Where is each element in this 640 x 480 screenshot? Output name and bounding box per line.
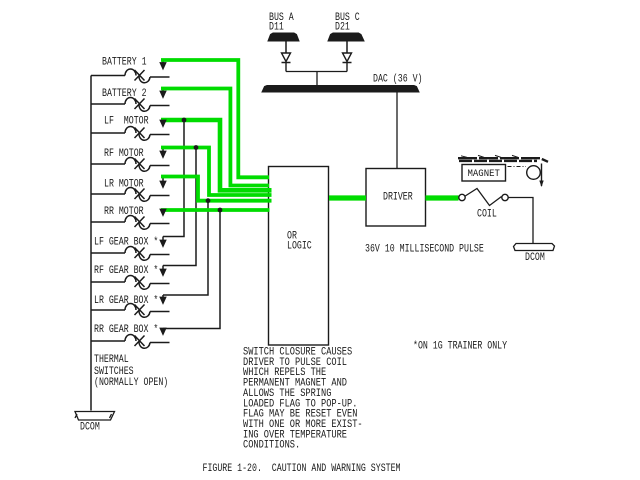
svg-text:LF GEAR BOX *: LF GEAR BOX * xyxy=(94,237,158,249)
power bus DAC (36 V) bar xyxy=(262,86,419,93)
svg-text:FIGURE 1-20. CAUTION AND WARN: FIGURE 1-20. CAUTION AND WARNING SYSTEM xyxy=(203,463,401,475)
coil L1 winding xyxy=(465,189,501,206)
thermal switch S6 RR MOTOR xyxy=(125,216,150,230)
OR logic U1 box xyxy=(269,167,329,346)
wire: arrow tail at S7 LF GEAR BOX xyxy=(162,237,164,242)
contact arrow at S9 LR GEAR BOX xyxy=(160,297,166,304)
svg-text:DCOM: DCOM xyxy=(525,252,545,264)
svg-text:BATTERY 1: BATTERY 1 xyxy=(102,57,147,69)
svg-text:LR GEAR BOX *: LR GEAR BOX * xyxy=(94,295,158,307)
svg-text:*ON 1G TRAINER ONLY: *ON 1G TRAINER ONLY xyxy=(413,341,507,353)
thermal switch S1 BATTERY 1 xyxy=(125,69,150,83)
wire: RF GEAR BOX branch from RF MOTOR net xyxy=(163,148,196,266)
wire: S9 LR GEAR BOX row horizontal leads xyxy=(91,310,170,312)
svg-text:RF GEAR BOX *: RF GEAR BOX * xyxy=(94,265,158,277)
wire: S2 BATTERY 2 row horizontal leads xyxy=(91,104,170,106)
thermal switch S7 LF GEAR BOX xyxy=(125,247,150,261)
svg-text:BATTERY 2: BATTERY 2 xyxy=(102,88,147,100)
bus bar BUS A D11 xyxy=(268,33,299,41)
wire: arrow tail at S2 BATTERY 2 xyxy=(162,89,164,93)
wire: S3 LF MOTOR row horizontal leads xyxy=(91,133,170,135)
wire: green net LF MOTOR switch to OR input 3 xyxy=(161,120,272,190)
thermal switch S5 LR MOTOR xyxy=(125,188,150,202)
svg-text:(NORMALLY OPEN): (NORMALLY OPEN) xyxy=(94,377,168,389)
svg-text:COIL: COIL xyxy=(477,209,497,221)
svg-text:THERMAL: THERMAL xyxy=(94,354,129,366)
svg-text:LOGIC: LOGIC xyxy=(287,241,312,253)
wire: green net LR MOTOR switch to OR input 5 xyxy=(161,177,272,201)
wire: BUS C to diode CR2 xyxy=(346,41,348,53)
flag indicator (spring loaded flag) xyxy=(527,164,542,187)
wire: green OR output to DRIVER input xyxy=(329,195,366,200)
diode CR2 (from BUS C) xyxy=(343,53,352,72)
wire: S1 BATTERY 1 row horizontal leads xyxy=(91,76,170,78)
coil L1 terminal node (right) xyxy=(502,194,508,200)
wire: green net BATTERY 1 switch to OR input 1 xyxy=(161,60,269,177)
wire: LR GEAR BOX branch from LR MOTOR net xyxy=(163,201,208,295)
wire: arrow tail at S9 LR GEAR BOX xyxy=(162,295,164,299)
wire: arrow tail at S3 LF MOTOR xyxy=(162,120,164,122)
wire: green net RF MOTOR switch to OR input 4 xyxy=(161,148,272,196)
svg-text:DRIVER: DRIVER xyxy=(383,192,413,204)
wire: arrow tail at S6 RR MOTOR xyxy=(162,209,164,212)
wire: left common bus vertical to DCOM ground xyxy=(90,76,92,411)
ground bar DCOM (left, thermal switch common) xyxy=(75,412,115,421)
contact arrow at S4 RF MOTOR xyxy=(160,151,166,158)
wire: S6 RR MOTOR row horizontal leads xyxy=(91,222,170,224)
wire: green DRIVER output to coil L1 xyxy=(426,195,459,200)
svg-text:CONDITIONS.: CONDITIONS. xyxy=(243,440,300,452)
wire: S8 RF GEAR BOX row horizontal leads xyxy=(91,282,170,284)
ground bar DCOM (right) xyxy=(514,244,555,251)
svg-text:36V 10 MILLISECOND PULSE: 36V 10 MILLISECOND PULSE xyxy=(365,244,484,256)
svg-text:LF MOTOR: LF MOTOR xyxy=(104,116,149,128)
wire: DAC bus down to DRIVER U2 xyxy=(396,92,398,169)
thermal switch S9 LR GEAR BOX xyxy=(125,304,150,318)
wire: arrow tail at S10 RR GEAR BOX xyxy=(162,329,164,330)
wire: arrow tail at S5 LR MOTOR xyxy=(162,177,164,183)
node: junction RR MOTOR / RR GEAR BOX xyxy=(218,208,223,213)
node: junction LF MOTOR / LF GEAR BOX xyxy=(182,118,187,123)
thermal switch S4 RF MOTOR xyxy=(125,158,150,172)
wire: S10 RR GEAR BOX row horizontal leads xyxy=(91,341,170,343)
svg-text:MAGNET: MAGNET xyxy=(468,169,500,180)
flag pointer arrow xyxy=(539,181,543,188)
svg-text:RR GEAR BOX *: RR GEAR BOX * xyxy=(94,324,158,336)
bus bar BUS C D21 xyxy=(328,33,364,41)
wire: diode outputs join to DAC bus xyxy=(286,72,347,86)
contact arrow at S6 RR MOTOR xyxy=(160,209,166,216)
svg-text:LR MOTOR: LR MOTOR xyxy=(104,179,144,191)
magnet (permanent magnet) box xyxy=(462,165,506,182)
contact arrow at S8 RF GEAR BOX xyxy=(160,269,166,276)
contact arrow at S10 RR GEAR BOX xyxy=(160,328,166,335)
svg-text:D21: D21 xyxy=(335,22,350,34)
diode CR1 (from BUS A) xyxy=(282,53,291,72)
wire: LF GEAR BOX branch from LF MOTOR net xyxy=(163,120,184,237)
node: junction RF MOTOR / RF GEAR BOX xyxy=(194,145,199,150)
thermal switch S10 RR GEAR BOX xyxy=(125,335,150,349)
magnet support wall (hatched) xyxy=(458,155,548,161)
contact arrow at S2 BATTERY 2 xyxy=(160,91,166,98)
svg-text:RR MOTOR: RR MOTOR xyxy=(104,206,144,218)
node: junction LR MOTOR / LR GEAR BOX xyxy=(206,198,211,203)
wire: green net RR MOTOR switch to OR input 6 xyxy=(161,208,270,212)
wire: arrow tail at S1 BATTERY 1 xyxy=(162,60,164,64)
svg-text:DAC (36 V): DAC (36 V) xyxy=(373,74,423,86)
wire: arrow tail at S8 RF GEAR BOX xyxy=(162,266,164,271)
driver U2 box xyxy=(366,169,426,227)
wire: S7 LF GEAR BOX row horizontal leads xyxy=(91,253,170,255)
contact arrow at S7 LF GEAR BOX xyxy=(160,240,166,247)
wire: dashed link magnet to flag xyxy=(508,166,527,168)
coil L1 terminal node (left) xyxy=(459,194,465,200)
thermal switch S2 BATTERY 2 xyxy=(125,98,150,112)
wire: S4 RF MOTOR row horizontal leads xyxy=(91,164,170,166)
wire: arrow tail at S4 RF MOTOR xyxy=(162,148,164,153)
svg-text:RF MOTOR: RF MOTOR xyxy=(104,148,144,160)
thermal switch S8 RF GEAR BOX xyxy=(125,276,150,290)
contact arrow at S3 LF MOTOR xyxy=(160,120,166,127)
svg-text:D11: D11 xyxy=(269,22,284,34)
svg-text:DCOM: DCOM xyxy=(80,422,100,434)
wire: green net BATTERY 2 switch to OR input 2 xyxy=(161,89,269,186)
contact arrow at S5 LR MOTOR xyxy=(160,181,166,188)
contact arrow at S1 BATTERY 1 xyxy=(160,63,166,70)
wire: S5 LR MOTOR row horizontal leads xyxy=(91,194,170,196)
wire: BUS A to diode CR1 xyxy=(285,41,287,53)
wire: coil to DCOM ground xyxy=(508,198,533,244)
thermal switch S3 LF MOTOR xyxy=(125,127,150,141)
wire: RR GEAR BOX branch from RR MOTOR net xyxy=(163,210,220,329)
